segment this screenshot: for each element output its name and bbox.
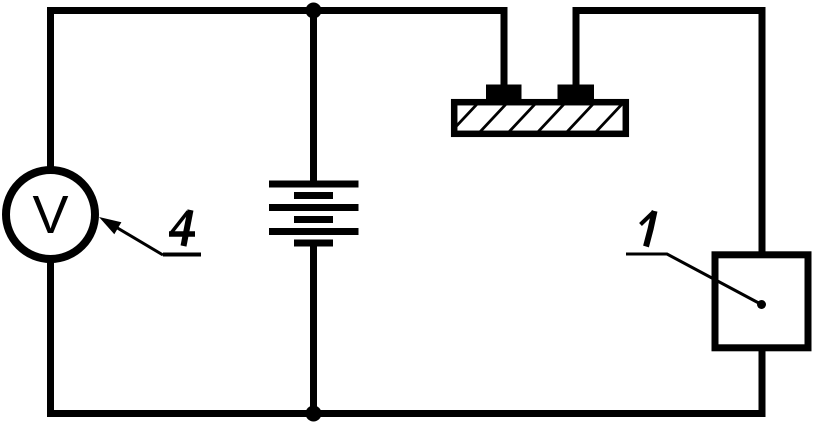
svg-text:V: V [32,185,68,245]
